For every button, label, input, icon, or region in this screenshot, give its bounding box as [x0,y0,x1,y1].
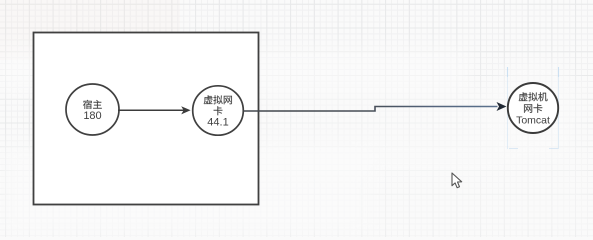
selection handle marks around right ellipse [508,67,559,149]
warm tint top-left [0,0,180,60]
node ellipse: host [66,84,119,135]
label: 宿主 [83,100,102,109]
label: Tomcat [516,115,550,127]
label: 180 [83,110,101,122]
node ellipse: virtual NIC [193,86,244,135]
arrow from host to vNIC [118,109,184,111]
blur washout patches [0,48,593,237]
svg-text:180: 180 [83,110,101,122]
node ellipse: VM NIC [508,83,558,133]
svg-text:Tomcat: Tomcat [516,115,550,127]
label: 虚拟机网卡 [519,92,548,113]
svg-text:44.1: 44.1 [207,116,228,128]
label: 虚拟网卡 [204,95,232,115]
label: 44.1 [207,116,228,128]
mouse cursor [452,173,462,188]
stepped connector from vNIC to VM NIC [244,107,498,112]
container rectangle [34,33,259,205]
